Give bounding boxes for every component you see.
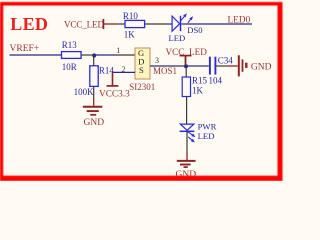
- svg-text:GND: GND: [84, 118, 105, 128]
- svg-text:R10: R10: [123, 11, 139, 21]
- svg-text:VCC3.3: VCC3.3: [99, 89, 130, 99]
- svg-text:LED: LED: [10, 14, 48, 34]
- svg-text:LED: LED: [169, 33, 186, 43]
- svg-text:104: 104: [209, 76, 223, 86]
- svg-text:1K: 1K: [124, 29, 136, 39]
- svg-text:LED: LED: [198, 131, 215, 141]
- svg-text:C34: C34: [218, 56, 234, 66]
- svg-text:1: 1: [116, 46, 120, 55]
- svg-text:LED0: LED0: [228, 15, 251, 25]
- svg-text:MOS1: MOS1: [153, 66, 177, 76]
- svg-text:SI2301: SI2301: [129, 82, 155, 92]
- svg-text:R13: R13: [62, 40, 78, 50]
- svg-text:GND: GND: [251, 63, 272, 73]
- svg-text:DS0: DS0: [187, 25, 202, 35]
- svg-text:100K: 100K: [74, 87, 95, 97]
- svg-text:S: S: [139, 65, 144, 75]
- svg-text:10R: 10R: [62, 62, 77, 72]
- svg-text:R15: R15: [192, 76, 208, 86]
- svg-text:VCC_LED: VCC_LED: [64, 19, 104, 29]
- svg-text:3: 3: [155, 56, 159, 65]
- svg-text:1K: 1K: [192, 86, 204, 96]
- svg-text:VREF+: VREF+: [10, 44, 40, 54]
